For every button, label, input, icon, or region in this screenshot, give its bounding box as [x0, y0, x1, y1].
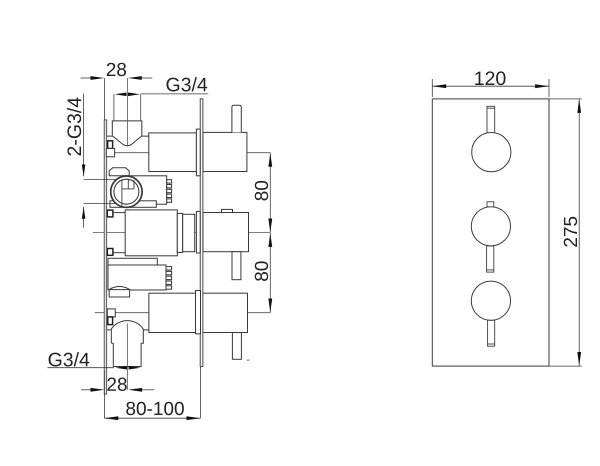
thermostat circle [111, 176, 142, 207]
middle centerline [93, 232, 271, 234]
top pipe centerline [126, 78, 128, 147]
middle valve stem [183, 214, 195, 251]
mounting plate [200, 99, 203, 367]
right view panel [432, 99, 581, 366]
knob bottom stem [488, 320, 495, 346]
bottom pipe centerline [126, 324, 128, 391]
dimension 28 bottom [81, 371, 154, 419]
G3/4 bottom label [49, 352, 90, 366]
bottom centerline [95, 312, 271, 314]
middle valve flange [196, 211, 200, 253]
thermostat cap bump [109, 168, 129, 176]
middle valve rear body [203, 213, 249, 252]
dimension 120 [432, 79, 549, 97]
knob top stem [487, 106, 495, 133]
top inlet elbow [107, 121, 149, 146]
bottom outlet pipe [232, 333, 241, 360]
top valve rear body [203, 132, 247, 171]
middle cartridge body [108, 265, 166, 290]
bottom valve body [149, 293, 248, 332]
dimension 80-100 [104, 367, 200, 419]
middle lower bolt [107, 249, 113, 256]
top centerline [104, 152, 270, 154]
dimension 80 upper [269, 153, 271, 233]
top valve front body [149, 133, 197, 172]
circle notch [122, 180, 134, 207]
bottom inlet elbow [107, 321, 149, 367]
lower port dome [109, 287, 129, 298]
bottom mounting bolt [108, 317, 113, 325]
bottom clip [107, 309, 115, 317]
middle outlet pipe [232, 252, 241, 280]
wall plate [104, 120, 107, 394]
knob middle stem [487, 246, 494, 272]
weld tick [247, 359, 250, 361]
middle cartridge ribs [166, 267, 172, 290]
knob middle [471, 207, 510, 246]
G3/4 top label [114, 94, 208, 121]
middle upper bolt [107, 210, 113, 217]
bracket under cartridge [110, 201, 156, 208]
knob bottom [471, 281, 510, 320]
knob middle nub [487, 202, 494, 208]
middle valve front body [125, 210, 177, 256]
dimension 275 [578, 99, 580, 366]
middle valve bracket bar [108, 258, 157, 265]
middle rear tab [222, 209, 233, 212]
dimension 28 top [81, 78, 153, 120]
cartridge housing [129, 176, 167, 204]
2-G3/4 label [67, 97, 81, 155]
top mounting bolt [108, 141, 113, 149]
dimension 80 lower [269, 233, 271, 312]
middle valve step [177, 213, 182, 252]
knob top [472, 133, 511, 172]
top clip [106, 149, 114, 157]
top valve flange [196, 129, 200, 176]
bottom valve flange [196, 291, 201, 334]
cartridge ribs [167, 180, 172, 203]
top outlet pipe [232, 105, 241, 132]
